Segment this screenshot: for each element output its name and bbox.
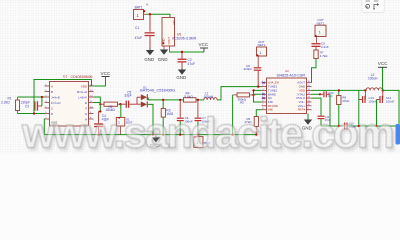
svg-text:+: + (146, 2, 149, 7)
node junction R5 right (252, 94, 254, 96)
svg-text:CD4081BM96: CD4081BM96 (71, 75, 93, 79)
svg-text:1: 1 (260, 51, 262, 55)
node junction R3 top (162, 99, 164, 101)
node junction TUNE2 wire (252, 89, 254, 91)
feedback loop wire over U1 (34, 80, 92, 107)
connector OUT top right (315, 18, 326, 43)
resistor R4 5.6k (184, 92, 197, 103)
wire R7 down to U2 AOUT (312, 59, 317, 83)
battery connector BT1 (134, 2, 149, 20)
resistor R1 2.2k (1, 97, 20, 114)
svg-text:C3: C3 (25, 104, 29, 108)
capacitor C6 100nF (177, 100, 193, 135)
inductor L2 100uH (366, 73, 382, 91)
svg-text:2.2kΩ: 2.2kΩ (1, 100, 10, 104)
svg-text:GND: GND (144, 57, 154, 62)
capacitor C13 100nF (359, 90, 377, 126)
wire R5 left leg down to ground rail (232, 95, 234, 135)
capacitor C3 220pF (21, 100, 42, 110)
node junction R2/C5/X1 (119, 103, 121, 105)
capacitor C11 47pF (312, 98, 331, 126)
svg-text:220pF: 220pF (244, 67, 253, 71)
U1 right pin numbers (90, 84, 93, 119)
U2 left pin numbers (262, 81, 264, 110)
svg-text:BAT54S_C518439G: BAT54S_C518439G (140, 88, 176, 92)
node junction L2 left (364, 89, 366, 91)
regulator U5 XC6206-3.3MR (162, 18, 197, 47)
node junction C4 at ground rail (97, 134, 99, 136)
node junction C13 at right rail (358, 125, 360, 127)
svg-text:K=C+D: K=C+D (51, 101, 60, 105)
svg-text:47kΩ: 47kΩ (342, 99, 350, 103)
svg-text:100uH: 100uH (368, 77, 378, 81)
resistor R5 390k (233, 93, 254, 105)
svg-text:NET1: NET1 (317, 21, 325, 25)
capacitor C4 43pF (94, 112, 109, 135)
svg-text:R5: R5 (240, 101, 244, 105)
ground flag under C1 (144, 48, 154, 63)
ground rail right section (321, 125, 399, 127)
node junction R5 at ground rail (232, 134, 234, 136)
svg-text:GND: GND (158, 57, 168, 62)
U1 left pin numbers (45, 84, 47, 119)
inductor L1 100uH (204, 92, 218, 100)
resistor R6 (245, 110, 262, 135)
U2 right pin numbers (308, 81, 311, 110)
svg-text:VCC: VCC (378, 61, 388, 66)
svg-text:4.7kΩ: 4.7kΩ (320, 54, 329, 58)
wire R1 top to U1 pin3 (18, 96, 45, 98)
capacitor C1 47uF (135, 14, 155, 47)
svg-text:XC6206-3.3MR: XC6206-3.3MR (172, 37, 197, 41)
svg-text:47uF: 47uF (188, 62, 196, 66)
svg-text:B: B (51, 90, 53, 94)
svg-text:NET1: NET1 (258, 43, 266, 47)
capacitor C7 100nF (195, 100, 211, 135)
U2 no-connect X flags (262, 82, 264, 100)
wires R5 to U2 TUNE2/BAND/FMI (254, 90, 262, 102)
op-amp/gate IC U1 CD4081BM96 (50, 75, 93, 127)
node junction L2 right (382, 89, 384, 91)
wire C3 left down to pin6 net (33, 106, 35, 114)
node junction R3 at ground rail (162, 134, 164, 136)
svg-text:2.2uF: 2.2uF (321, 45, 329, 49)
diode D1 BAT54S (137, 85, 176, 107)
ground flag under U2 (302, 114, 312, 131)
capacitor C10 on rail (344, 123, 357, 130)
svg-text:1: 1 (319, 30, 321, 34)
U2 left pins (262, 83, 267, 110)
wire U1 VSS down to ground rail (43, 119, 45, 135)
wire VCC to U1 VDD pin (94, 84, 106, 86)
wire L1 up to U2 TUNE1 (217, 87, 261, 100)
node junction C6 at ground rail (179, 134, 181, 136)
toolbar fragment top-right (362, 0, 384, 12)
wire D1 upper out to R4 row (148, 97, 184, 100)
svg-text:E: E (85, 101, 87, 105)
svg-text:47uF: 47uF (135, 36, 143, 40)
svg-text:100nF: 100nF (386, 99, 395, 103)
ground flag on rail (150, 135, 160, 148)
node junction R6 at ground rail (255, 134, 257, 136)
ground pin + flag under U5 (158, 46, 168, 62)
VCC power flag (199, 42, 209, 52)
node junction C14 at right rail (375, 125, 377, 127)
svg-text:M=G+H: M=G+H (77, 90, 87, 94)
svg-text:VIN: VIN (172, 20, 176, 25)
ground rail (bottom) (44, 134, 256, 136)
node bus junction (99, 103, 101, 105)
capacitor C8 220pF (244, 64, 262, 87)
node junction C6 tap (179, 99, 181, 101)
svg-text:J=A+B: J=A+B (51, 95, 60, 99)
VDD rail wire to L2 (312, 89, 366, 91)
VCC power flag right (378, 61, 388, 91)
svg-text:VCC: VCC (199, 42, 209, 47)
capacitor C2 47uF (178, 52, 196, 69)
svg-text:VOUT: VOUT (167, 37, 171, 45)
capacitor C14 100nF (377, 90, 395, 126)
connector ANT2 at bottom (194, 134, 211, 148)
resistor R7 4.7k (314, 50, 328, 59)
resistor R2 180k (100, 102, 120, 112)
capacitor C12 22pF (312, 91, 335, 126)
node junction C7 at ground rail (197, 134, 199, 136)
wire bus down to C4 tap (99, 104, 101, 111)
U2 right pins (307, 83, 312, 110)
watermark blue logo fragment at right edge (396, 124, 400, 145)
wire VDD rail right edge down (383, 90, 399, 126)
wire R1 bottom to U1 pin6 (18, 113, 45, 115)
node junction R8 at right rail (338, 125, 340, 127)
svg-text:A: A (51, 84, 53, 88)
wire BT1 to VIN (147, 14, 171, 17)
VCC flag above U1 (101, 71, 111, 84)
wire U1 pin11 to bus (94, 102, 101, 104)
capacitor C9 2.2uF (312, 42, 329, 50)
wire VOUT to VCC rail (169, 46, 171, 52)
svg-text:C12: C12 (328, 95, 333, 98)
resonator X1 (116, 104, 132, 134)
wire C3 right up to pin3 net (41, 97, 43, 106)
capacitor C5 33pF (120, 90, 137, 107)
node junction C7 tap (197, 99, 199, 101)
connector ANT top (257, 40, 267, 67)
svg-text:GND: GND (176, 75, 186, 80)
svg-text:VDD: VDD (81, 84, 87, 88)
svg-text:SI4825-A10-CSR: SI4825-A10-CSR (277, 74, 306, 78)
resistor R8 47k (337, 89, 350, 126)
wire R4 to L1 (196, 99, 204, 101)
U1 right pins 8-14 (89, 86, 94, 119)
svg-text:BAT1: BAT1 (135, 6, 143, 10)
svg-text:www.sandacite.com: www.sandacite.com (21, 111, 393, 155)
node junction at C1 tap (149, 13, 151, 15)
svg-text:U1: U1 (63, 75, 67, 79)
node junction D1 at ground rail (152, 134, 154, 136)
radio IC U2 SI4825-A10-CSR (262, 69, 312, 114)
U1 left pins 1-7 (45, 86, 50, 119)
svg-text:L=E+F: L=E+F (78, 95, 87, 99)
svg-text:U2: U2 (285, 69, 289, 73)
svg-text:C1: C1 (135, 26, 139, 30)
svg-text:100uH: 100uH (204, 95, 214, 99)
svg-text:33pF: 33pF (124, 94, 131, 98)
svg-text:VCC: VCC (101, 71, 111, 76)
svg-text:5.6kΩ: 5.6kΩ (184, 95, 193, 99)
node junction C2 tap (181, 51, 183, 53)
ground flag under C2 (176, 69, 186, 81)
resistor R3 1M (161, 100, 174, 135)
wire U1 pin12 to bus (94, 97, 101, 104)
svg-text:100nF: 100nF (368, 99, 377, 103)
wire D1 lower out down to ground rail (148, 104, 153, 134)
